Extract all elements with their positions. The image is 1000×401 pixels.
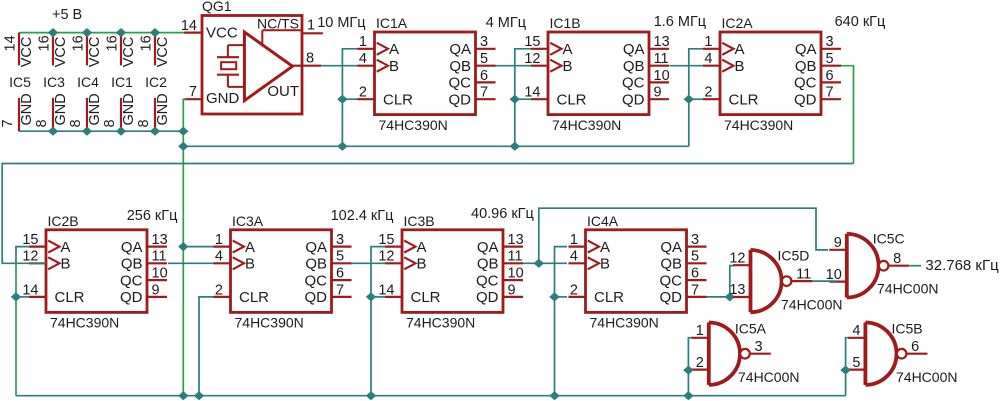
svg-text:10: 10 (152, 266, 168, 282)
svg-text:B: B (735, 58, 745, 75)
svg-text:NC/TS: NC/TS (257, 16, 299, 32)
junction (840, 366, 850, 375)
junction (366, 391, 376, 400)
svg-text:A: A (563, 41, 573, 58)
svg-text:8: 8 (68, 119, 84, 127)
svg-text:A: A (735, 41, 745, 58)
svg-text:1: 1 (215, 232, 223, 248)
svg-text:10 МГц: 10 МГц (317, 15, 365, 31)
svg-text:11: 11 (508, 249, 523, 265)
svg-text:B: B (600, 256, 610, 273)
crystal element inside QG1 (217, 45, 246, 87)
svg-text:CLR: CLR (239, 289, 269, 306)
svg-text:A: A (417, 239, 427, 256)
svg-text:7: 7 (189, 84, 197, 100)
wire IC3A CLR drop to bottom rail (199, 297, 214, 396)
svg-text:74HC390N: 74HC390N (724, 117, 793, 133)
svg-text:1: 1 (359, 34, 367, 50)
wire IC4A CLR stub (555, 296, 568, 298)
svg-text:A: A (61, 239, 71, 256)
svg-text:15: 15 (524, 34, 540, 50)
svg-text:13: 13 (508, 232, 524, 248)
svg-text:5: 5 (336, 249, 344, 265)
svg-text:74HC390N: 74HC390N (235, 315, 304, 331)
svg-text:74HC390N: 74HC390N (50, 315, 119, 331)
svg-text:QA: QA (795, 41, 817, 58)
wire IC2B CLR stub (16, 296, 30, 298)
power pin GND IC2 (pin 8) (136, 93, 171, 131)
svg-text:16: 16 (105, 35, 121, 51)
junction (48, 127, 58, 136)
svg-text:2: 2 (359, 85, 367, 101)
svg-text:640 кГц: 640 кГц (835, 14, 886, 30)
wire CLR ground rail row1 (183, 145, 689, 147)
junction (116, 28, 126, 37)
svg-text:QD: QD (622, 91, 645, 108)
junction (366, 292, 376, 301)
svg-text:VCC: VCC (19, 37, 35, 68)
svg-text:14: 14 (22, 282, 38, 298)
svg-text:12: 12 (524, 51, 540, 67)
svg-text:GND: GND (121, 93, 137, 125)
junction (48, 28, 58, 37)
svg-text:QB: QB (795, 58, 817, 75)
wire IC1B QB to IC2A B input (1.6 MHz) (670, 65, 704, 67)
svg-text:16: 16 (139, 35, 155, 51)
svg-text:GND: GND (19, 93, 35, 125)
wire IC5D pin12 branch (730, 266, 734, 297)
svg-text:QD: QD (449, 91, 472, 108)
svg-text:QC: QC (476, 272, 499, 289)
svg-text:IC1B: IC1B (550, 15, 581, 31)
svg-text:CLR: CLR (594, 289, 624, 306)
svg-text:3: 3 (755, 339, 763, 355)
svg-text:B: B (417, 256, 427, 273)
oscillator QG1 (202, 0, 302, 114)
svg-text:QB: QB (121, 256, 143, 273)
wire IC3B A branch / CLR drop (371, 247, 386, 396)
counter IC3B (74HC390N) (378, 213, 523, 331)
svg-text:11: 11 (654, 51, 669, 67)
junction (683, 391, 693, 400)
svg-text:12: 12 (729, 250, 745, 266)
svg-text:IC5A: IC5A (735, 321, 767, 337)
junction (178, 391, 188, 400)
svg-text:QA: QA (660, 239, 682, 256)
wire IC2A A branch / CLR drop (689, 49, 703, 147)
power pin VCC IC3 (pin 16) (37, 33, 69, 68)
svg-text:IC3B: IC3B (404, 213, 435, 229)
svg-text:IC5B: IC5B (892, 321, 923, 337)
svg-text:2: 2 (215, 282, 223, 298)
power pin VCC IC1 (pin 16) (105, 33, 137, 68)
svg-text:QC: QC (660, 272, 683, 289)
wire IC2B B input stub (30, 262, 47, 264)
svg-text:GND: GND (87, 93, 103, 125)
svg-text:12: 12 (378, 249, 394, 265)
svg-text:3: 3 (691, 232, 699, 248)
svg-text:IC4: IC4 (77, 74, 99, 90)
wire IC3B QB to IC4A B input (40.96 kHz) (523, 262, 567, 264)
svg-text:5: 5 (480, 51, 488, 67)
wire IC2A CLR stub (689, 98, 703, 100)
wire IC5C output (32.768 kHz) (910, 265, 921, 267)
junction (178, 127, 188, 136)
svg-text:14: 14 (378, 282, 394, 298)
svg-text:IC1A: IC1A (376, 15, 408, 31)
junction (194, 391, 204, 400)
svg-text:9: 9 (508, 282, 516, 298)
wire bottom ground rail (16, 395, 846, 397)
svg-text:B: B (389, 58, 399, 75)
svg-text:IC5D: IC5D (778, 248, 810, 264)
svg-text:10: 10 (654, 68, 670, 84)
NAND gate IC5D (74HC00N) (729, 248, 842, 313)
svg-text:5: 5 (826, 51, 834, 67)
junction (82, 127, 92, 136)
power pin VCC IC4 (pin 16) (71, 33, 103, 68)
svg-text:A: A (245, 239, 255, 256)
wire 640 kHz feedback rail (2, 164, 853, 264)
svg-text:15: 15 (378, 232, 394, 248)
svg-text:4: 4 (215, 249, 223, 265)
wire IC2A QB down to feedback rail (640 kHz) (841, 66, 854, 164)
svg-text:CLR: CLR (383, 91, 413, 108)
junction (510, 95, 520, 104)
svg-text:IC2: IC2 (145, 74, 167, 90)
svg-text:1: 1 (570, 232, 578, 248)
svg-text:B: B (245, 256, 255, 273)
svg-text:CLR: CLR (729, 91, 759, 108)
pin 1 NC/TS of QG1 (302, 18, 323, 34)
wire IC2B QB to IC3A B input (256 kHz) (168, 262, 214, 264)
wire IC3B CLR stub (371, 296, 386, 298)
svg-text:VCC: VCC (155, 37, 171, 68)
svg-text:13: 13 (654, 34, 670, 50)
svg-text:IC3A: IC3A (232, 213, 264, 229)
wire IC1B CLR stub (515, 98, 531, 100)
wire 40.96 kHz branch to IC5C pin 9 (539, 208, 828, 263)
svg-text:VCC: VCC (206, 25, 238, 42)
svg-text:6: 6 (826, 68, 834, 84)
pin 8 OUT of QG1 (291, 51, 321, 67)
wire IC5D output to IC5C pin 10 (812, 280, 837, 282)
svg-text:QD: QD (660, 289, 683, 306)
svg-text:13: 13 (152, 232, 168, 248)
svg-text:IC5: IC5 (9, 74, 31, 90)
wire IC5A tied inputs to ground rail (688, 338, 691, 396)
wire IC1A CLR stub (342, 98, 357, 100)
svg-text:7: 7 (691, 282, 699, 298)
NAND gate IC5B (74HC00N) (848, 321, 958, 386)
svg-text:74HC390N: 74HC390N (552, 117, 621, 133)
svg-text:QA: QA (623, 41, 645, 58)
junction (549, 391, 559, 400)
svg-text:VCC: VCC (53, 37, 69, 68)
svg-text:74HC00N: 74HC00N (781, 297, 842, 313)
svg-text:32.768 кГц: 32.768 кГц (925, 257, 999, 274)
wire IC5B tied inputs to ground rail (846, 338, 848, 396)
svg-text:10: 10 (508, 266, 524, 282)
svg-text:7: 7 (826, 85, 834, 101)
wire IC2B A branch (16, 247, 30, 264)
svg-text:3: 3 (826, 34, 834, 50)
wire IC1A A branch / CLR drop (342, 49, 357, 147)
svg-text:IC4A: IC4A (587, 213, 619, 229)
svg-text:QD: QD (476, 289, 499, 306)
svg-text:QC: QC (305, 272, 328, 289)
svg-text:15: 15 (22, 232, 38, 248)
svg-text:QD: QD (120, 289, 143, 306)
counter IC2B (74HC390N) (22, 213, 167, 331)
power pin GND IC4 (pin 8) (68, 93, 103, 131)
junction (684, 95, 694, 104)
svg-text:1: 1 (704, 34, 712, 50)
svg-text:2: 2 (696, 355, 704, 371)
svg-text:IC1: IC1 (111, 74, 133, 90)
svg-text:6: 6 (480, 68, 488, 84)
junction (150, 28, 160, 37)
svg-text:B: B (563, 58, 573, 75)
NAND gate IC5C (74HC00N) (826, 231, 939, 298)
svg-text:7: 7 (336, 282, 344, 298)
svg-text:QA: QA (121, 239, 143, 256)
svg-text:VCC: VCC (121, 37, 137, 68)
wire IC1B A branch / CLR drop (515, 49, 531, 147)
wire IC4A QD to IC5D inputs (707, 296, 734, 298)
svg-text:1: 1 (307, 18, 315, 34)
svg-text:8: 8 (306, 51, 314, 67)
svg-text:1.6 МГц: 1.6 МГц (654, 14, 706, 30)
svg-text:IC2A: IC2A (722, 15, 754, 31)
svg-text:A: A (389, 41, 399, 58)
svg-text:8: 8 (893, 251, 901, 267)
svg-text:74HC00N: 74HC00N (877, 281, 938, 297)
svg-text:QD: QD (305, 289, 328, 306)
wire QG1 OUT to IC1A B input (10 MHz) (321, 65, 357, 67)
svg-text:4: 4 (359, 51, 367, 67)
wire IC3A A input from ground column (183, 246, 213, 248)
svg-text:4: 4 (570, 249, 578, 265)
counter IC3A (74HC390N) (214, 213, 352, 331)
wire IC2B CLR/ground column (15, 263, 17, 395)
svg-text:11: 11 (796, 266, 811, 282)
amplifier triangle of QG1 (244, 32, 292, 101)
svg-text:B: B (61, 256, 71, 273)
svg-text:QA: QA (449, 41, 471, 58)
wire IC1A QB to IC1B B input (4 MHz) (496, 65, 532, 67)
svg-text:1: 1 (696, 323, 704, 339)
power pin GND IC5 (pin 7) (0, 93, 35, 131)
svg-text:GND: GND (206, 90, 240, 107)
power pin VCC IC5 (pin 14) (3, 33, 35, 68)
svg-text:13: 13 (729, 282, 745, 298)
svg-text:6: 6 (336, 266, 344, 282)
svg-text:8: 8 (136, 119, 152, 127)
svg-text:VCC: VCC (87, 37, 103, 68)
svg-text:6: 6 (911, 339, 919, 355)
svg-text:2: 2 (704, 85, 712, 101)
svg-text:4: 4 (852, 323, 860, 339)
svg-text:IC5C: IC5C (873, 231, 905, 247)
svg-text:A: A (600, 239, 610, 256)
svg-text:QC: QC (622, 75, 645, 92)
counter IC2A (74HC390N) (703, 15, 841, 133)
junction (337, 95, 347, 104)
wire GND rail under power pins (19, 130, 184, 132)
svg-text:GND: GND (155, 93, 171, 125)
svg-text:5: 5 (852, 355, 860, 371)
svg-text:IC2B: IC2B (48, 213, 79, 229)
svg-text:QC: QC (120, 272, 143, 289)
svg-text:74HC390N: 74HC390N (590, 315, 659, 331)
svg-text:3: 3 (480, 34, 488, 50)
power pin VCC IC2 (pin 16) (139, 33, 171, 68)
junction (337, 142, 347, 151)
svg-text:CLR: CLR (557, 91, 587, 108)
counter IC1A (74HC390N) (358, 15, 496, 133)
svg-text:IC3: IC3 (43, 74, 65, 90)
svg-text:74HC390N: 74HC390N (379, 117, 448, 133)
power pin GND IC1 (pin 8) (102, 93, 137, 131)
svg-text:74HC00N: 74HC00N (738, 369, 799, 385)
svg-text:16: 16 (71, 35, 87, 51)
svg-text:11: 11 (152, 249, 167, 265)
svg-text:14: 14 (3, 35, 19, 51)
junction (683, 366, 693, 375)
junction (11, 292, 21, 301)
svg-text:QB: QB (623, 58, 645, 75)
NAND gate IC5A (74HC00N) (691, 321, 799, 386)
wire IC3A QB to IC3B B input (102.4 kHz) (351, 262, 386, 264)
counter IC1B (74HC390N) (524, 15, 669, 133)
svg-text:102.4 кГц: 102.4 кГц (331, 208, 394, 224)
svg-text:2: 2 (570, 282, 578, 298)
svg-text:GND: GND (53, 93, 69, 125)
svg-text:8: 8 (102, 119, 118, 127)
svg-text:QC: QC (449, 75, 472, 92)
wire GND net from QG1 down left column (183, 99, 186, 396)
svg-text:QG1: QG1 (202, 0, 232, 14)
junction (725, 292, 735, 301)
svg-text:6: 6 (691, 266, 699, 282)
svg-text:9: 9 (654, 85, 662, 101)
junction (534, 259, 544, 268)
svg-text:7: 7 (0, 119, 16, 127)
NC/TS internal divider of QG1 (262, 30, 302, 44)
svg-text:4 МГц: 4 МГц (486, 15, 526, 31)
wire IC4A A branch / CLR drop (555, 247, 568, 396)
svg-text:CLR: CLR (411, 289, 441, 306)
svg-text:74HC390N: 74HC390N (406, 315, 475, 331)
junction (178, 142, 188, 151)
svg-text:14: 14 (524, 85, 540, 101)
svg-text:OUT: OUT (267, 83, 299, 100)
power pin GND IC3 (pin 8) (34, 93, 69, 131)
svg-text:QB: QB (305, 256, 327, 273)
svg-text:4: 4 (704, 51, 712, 67)
junction (178, 242, 188, 251)
svg-text:3: 3 (336, 232, 344, 248)
svg-text:QB: QB (449, 58, 471, 75)
svg-text:8: 8 (34, 119, 50, 127)
counter IC4A (74HC390N) (569, 213, 707, 331)
svg-text:QA: QA (477, 239, 499, 256)
junction (82, 28, 92, 37)
svg-text:5: 5 (691, 249, 699, 265)
svg-text:9: 9 (152, 282, 160, 298)
pin 7 GND of QG1 (184, 84, 202, 100)
pin 14 VCC of QG1 (181, 18, 202, 34)
svg-text:16: 16 (37, 35, 53, 51)
svg-text:QC: QC (794, 75, 817, 92)
svg-text:14: 14 (181, 18, 197, 34)
svg-text:QB: QB (660, 256, 682, 273)
junction (116, 127, 126, 136)
svg-text:74HC00N: 74HC00N (896, 369, 957, 385)
svg-text:12: 12 (22, 249, 38, 265)
svg-text:CLR: CLR (55, 289, 85, 306)
svg-text:40.96 кГц: 40.96 кГц (471, 206, 534, 222)
junction (510, 142, 520, 151)
svg-text:7: 7 (480, 85, 488, 101)
svg-text:256 кГц: 256 кГц (127, 208, 178, 224)
svg-text:QB: QB (477, 256, 499, 273)
svg-text:+5 В: +5 В (52, 7, 82, 23)
svg-text:9: 9 (834, 235, 842, 251)
wire +5V rail (19, 32, 184, 34)
junction (150, 127, 160, 136)
junction (549, 292, 559, 301)
svg-text:QD: QD (794, 91, 817, 108)
svg-text:QA: QA (305, 239, 327, 256)
